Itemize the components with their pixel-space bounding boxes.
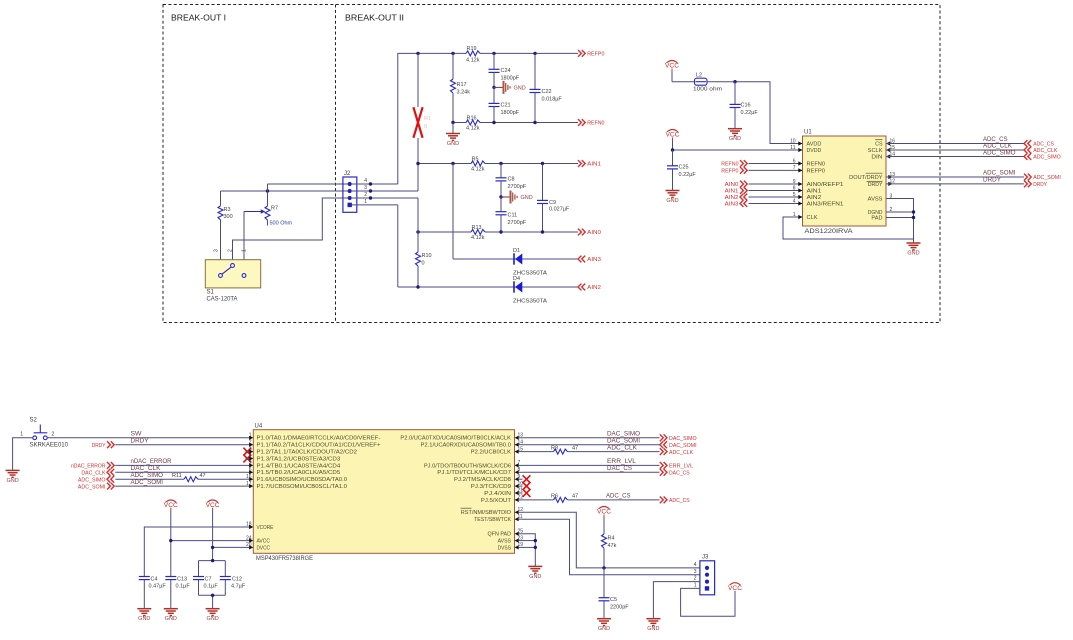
flag REFN0 into U1 [721, 160, 747, 168]
svg-text:ADC_CS: ADC_CS [983, 137, 1008, 143]
svg-text:PJ.4/XIN: PJ.4/XIN [484, 491, 511, 497]
wire R8 to ADC_CLK flag [568, 445, 660, 451]
wire AIN2 to pin 5 [749, 196, 803, 198]
svg-text:8: 8 [793, 185, 796, 191]
title BREAK-OUT II [345, 14, 404, 23]
capacitor C25 0.22uF [667, 150, 696, 190]
svg-text:3: 3 [214, 249, 220, 252]
svg-text:2: 2 [694, 576, 697, 582]
flag DRDY into U4 [92, 441, 115, 449]
flag DAC_SIMO [660, 434, 697, 442]
svg-text:REFN0: REFN0 [587, 121, 604, 127]
svg-text:DRDY: DRDY [1033, 182, 1047, 188]
wire R6 to ADC_CS flag [568, 494, 660, 500]
svg-text:R8: R8 [551, 445, 558, 451]
wire AIN0 to pin 9 [749, 183, 803, 185]
svg-text:ADC_SIMO: ADC_SIMO [131, 473, 164, 479]
svg-text:AIN0/REFP1: AIN0/REFP1 [807, 182, 844, 188]
title BREAK-OUT I [171, 14, 226, 23]
flag REFP0 into U1 [721, 167, 747, 175]
wire S1 pin2 to J2 pin2 row [233, 198, 350, 264]
U1 pin 15 SCLK [868, 145, 896, 154]
op-amp U1 ADS1220IRVA body [803, 130, 887, 236]
svg-text:1800pF: 1800pF [501, 110, 520, 116]
svg-text:DAC_CS: DAC_CS [607, 466, 632, 472]
frame BREAK-OUT dashed border [163, 5, 940, 323]
U4 pin 20 DVCC [246, 542, 271, 551]
svg-text:CS: CS [875, 142, 883, 148]
junction J2 pin4 [369, 182, 372, 185]
resistor R5 4.12k [471, 156, 485, 172]
U1 pin 13 DOUT/DRDY [849, 172, 895, 181]
junction C7/C12 bottom [211, 594, 214, 597]
U1 pin 7 REFP0 [793, 165, 825, 174]
U1 pin 9 AIN0/REFP1 [793, 179, 844, 188]
wire R7 wiper to S1 pin1 [243, 212, 245, 274]
junction AVSS [534, 539, 537, 542]
junction C7/C12 top [211, 559, 214, 562]
junction C8/C11 node [499, 195, 502, 198]
capacitor C21 1800pF [489, 87, 520, 122]
U1 pin 3 AVSS [868, 193, 893, 202]
svg-text:DAC_CLK: DAC_CLK [81, 471, 105, 477]
U1 pin 14 DIN [871, 151, 895, 160]
svg-text:CAS-120TA: CAS-120TA [207, 297, 238, 303]
svg-text:0.1µF: 0.1µF [176, 583, 191, 589]
capacitor C22 0.018uF [530, 53, 563, 122]
wire DVCC to U4 pin 20 [213, 546, 246, 548]
svg-text:C12: C12 [232, 576, 242, 582]
svg-text:ADS1220IRVA: ADS1220IRVA [805, 229, 853, 235]
svg-text:R7: R7 [271, 206, 278, 212]
U1 pin 10 AVDD [790, 138, 821, 147]
svg-text:ERR_LVL: ERR_LVL [669, 464, 693, 470]
ground GND below U4 [528, 566, 542, 580]
svg-text:S2: S2 [30, 418, 38, 424]
svg-text:4: 4 [364, 178, 367, 184]
capacitor C7 0.1uF [193, 576, 218, 589]
svg-text:4.12k: 4.12k [466, 126, 480, 132]
svg-text:7: 7 [793, 165, 796, 171]
junction PAD [912, 216, 915, 219]
flag AIN1 [578, 160, 601, 168]
resistor R16 4.12k [466, 115, 480, 131]
flag ERR_LVL [660, 462, 693, 470]
wire CLK pin 1 to ground rail [783, 217, 914, 239]
svg-text:R5: R5 [472, 156, 479, 162]
wire VCC to DVDD pin 11 [673, 149, 803, 151]
U4 pin 25 QFN PAD [488, 529, 524, 538]
U4 pin 7 PJ.0/TDO/TB0OUTH/SMCLK/CD6 [424, 460, 523, 469]
flag AIN1 into U1 [725, 187, 748, 195]
svg-text:ADC_SIMO: ADC_SIMO [1033, 155, 1061, 161]
U4 pin 12 RST/NMI/SBWTDIO [461, 507, 524, 516]
svg-text:47: 47 [200, 473, 206, 479]
power VCC at J3 [728, 583, 743, 592]
flag AIN0 [578, 229, 601, 237]
svg-text:U4: U4 [255, 424, 263, 430]
svg-text:GND: GND [6, 478, 18, 484]
wire J2 pin2 rail down to AIN0 row [417, 198, 419, 232]
junction AIN1 row at DNP rail [416, 162, 419, 165]
svg-text:AIN2: AIN2 [807, 195, 822, 201]
svg-text:DOUT/DRDY: DOUT/DRDY [849, 175, 883, 181]
svg-text:ADC_CS: ADC_CS [1033, 142, 1054, 148]
capacitor C5 2200pF [599, 568, 630, 618]
junction AVCC/VCC [169, 539, 172, 542]
wire SW net S2 to U4 pin 1 [47, 432, 245, 438]
svg-text:0.027µF: 0.027µF [549, 207, 570, 213]
svg-text:2: 2 [228, 249, 234, 252]
svg-text:BREAK-OUT II: BREAK-OUT II [345, 14, 404, 23]
wire J2 pin1 rail down to AIN2 row [397, 205, 399, 287]
svg-text:REFP0: REFP0 [587, 52, 604, 58]
svg-text:VCC: VCC [728, 586, 743, 592]
U1 pin 5 AIN2 [793, 192, 822, 201]
svg-text:R3: R3 [224, 207, 231, 213]
U1 pin 4 AIN3/REFN1 [793, 198, 844, 207]
flag DRDY out [1024, 181, 1047, 189]
svg-text:GND: GND [521, 195, 533, 201]
U4 pin 5 P1.4/TB0.1/UCA0STE/A4/CD4 [246, 460, 341, 469]
U1 pin 8 AIN1 [793, 185, 822, 194]
no-connect X on U4 pin 21 PJ.4 [523, 489, 531, 497]
svg-text:2700pF: 2700pF [508, 220, 527, 226]
svg-text:REFP0: REFP0 [807, 169, 826, 175]
svg-text:GND: GND [138, 616, 150, 622]
svg-text:AIN0: AIN0 [725, 182, 739, 188]
svg-text:3: 3 [694, 569, 697, 575]
U4 RST overline [461, 507, 472, 509]
svg-text:P1.6/UCB0SIMO/UCB0SDA/TA0.0: P1.6/UCB0SIMO/UCB0SDA/TA0.0 [257, 477, 348, 483]
svg-text:ADC_SOMI: ADC_SOMI [131, 480, 164, 486]
svg-text:C8: C8 [508, 177, 515, 183]
svg-text:500 Ohm: 500 Ohm [270, 221, 293, 227]
svg-text:C4: C4 [151, 576, 158, 582]
resistor R13 4.12k [471, 225, 485, 241]
wire DNP rail to J2 pin3 row [417, 164, 419, 192]
wire AIN2 row [398, 286, 578, 288]
U4 pin 23 AVSS [498, 535, 524, 544]
svg-text:REFP0: REFP0 [721, 169, 738, 175]
svg-text:DRDY: DRDY [868, 182, 883, 188]
ground GND below C25 [666, 191, 680, 205]
capacitor C8 2700pF [496, 164, 527, 198]
U1 pin 1 CLK [793, 212, 818, 221]
junction R4/RST/C5 node [602, 566, 605, 569]
svg-text:C22: C22 [542, 89, 552, 95]
svg-text:P1.7/UCB0SOMI/UCB0SCL/TA1.0: P1.7/UCB0SOMI/UCB0SCL/TA1.0 [257, 484, 348, 490]
svg-text:PJ.2/TMS/ACLK/CD8: PJ.2/TMS/ACLK/CD8 [454, 477, 511, 483]
wire DRDY to U4 pin 2 [115, 438, 245, 444]
svg-text:DRDY: DRDY [983, 178, 1001, 184]
svg-text:C24: C24 [501, 68, 511, 74]
svg-text:4: 4 [793, 198, 796, 204]
svg-text:2: 2 [52, 432, 55, 438]
flag DAC_SOMI [660, 441, 697, 449]
junction DGND [912, 210, 915, 213]
wire AVSS to ground rail [886, 199, 914, 243]
flag ADC_CS [1024, 140, 1054, 148]
svg-text:PJ.0/TDO/TB0OUTH/SMCLK/CD6: PJ.0/TDO/TB0OUTH/SMCLK/CD6 [424, 463, 511, 469]
flag REFP0 [578, 50, 604, 58]
svg-text:GND: GND [907, 251, 919, 257]
switch S2 SKRKAEE010 [20, 418, 68, 449]
svg-text:nDAC_ERROR: nDAC_ERROR [131, 459, 173, 465]
svg-text:AIN3/REFN1: AIN3/REFN1 [807, 202, 844, 208]
svg-text:P1.4/TB0.1/UCA0STE/A4/CD4: P1.4/TB0.1/UCA0STE/A4/CD4 [257, 463, 341, 469]
svg-text:DRDY: DRDY [131, 438, 149, 444]
wire DRDY net [886, 178, 1024, 184]
U1 pin 12 DRDY [868, 179, 896, 188]
junction at C25 [671, 148, 674, 151]
svg-text:0.22µF: 0.22µF [741, 110, 759, 116]
resistor R7 (500 Ohm pot) [244, 184, 293, 227]
svg-text:PAD: PAD [871, 216, 882, 222]
svg-text:ADC_CLK: ADC_CLK [983, 144, 1012, 150]
junction R3/R7 node [266, 189, 269, 192]
switch S1 CAS-120TA [205, 249, 260, 303]
junction REFN0 row at C21 [492, 121, 495, 124]
svg-text:CLK: CLK [807, 215, 818, 221]
svg-text:ADC_CLK: ADC_CLK [669, 450, 693, 456]
svg-text:ADC_CS: ADC_CS [606, 494, 631, 500]
svg-text:C11: C11 [508, 213, 518, 219]
capacitor C4 0.47uF [139, 576, 167, 608]
ground GND below S2 [6, 470, 20, 484]
svg-text:U1: U1 [804, 130, 812, 136]
svg-text:ADC_SIMO: ADC_SIMO [983, 150, 1016, 156]
svg-text:R13: R13 [472, 225, 482, 231]
svg-text:47: 47 [572, 494, 578, 500]
wire AIN0 row [418, 231, 578, 233]
U4 pin 13 P2.0/UCA0TXD/UCA0SIMO/TB0CLK/ACLK [400, 433, 523, 442]
svg-text:C5: C5 [610, 597, 617, 603]
svg-text:PJ.1/TDI/TCLK/MCLK/CD7: PJ.1/TDI/TCLK/MCLK/CD7 [437, 470, 511, 476]
svg-text:1: 1 [694, 583, 697, 589]
svg-text:6: 6 [793, 158, 796, 164]
flag AIN3 [578, 256, 601, 264]
ground GND below C13 [164, 609, 178, 623]
ground GND below C5 [597, 619, 611, 633]
wire ADC_CLK net [886, 144, 1024, 150]
svg-text:MSP430FR5738IRGE: MSP430FR5738IRGE [256, 556, 313, 562]
wire PAD to ground rail [886, 217, 914, 219]
svg-text:47: 47 [572, 445, 578, 451]
wire ADC_CS net [886, 137, 1024, 144]
svg-text:2: 2 [364, 192, 367, 198]
wire J2 pin2 stub [352, 197, 418, 199]
svg-text:AIN1: AIN1 [725, 189, 739, 195]
svg-text:GND: GND [447, 141, 459, 147]
svg-text:S1: S1 [207, 290, 215, 296]
flag nDAC_ERROR into U4 [71, 462, 114, 470]
U1 pin 2 DGND [868, 207, 893, 216]
svg-text:GND: GND [529, 574, 541, 580]
U4 pin 3 P1.2/TA1.1/TA0CLK/CDOUT/A2/CD2 [246, 446, 358, 455]
power VCC at L2 [665, 61, 680, 82]
flag ADC_SOMI into U4 [78, 483, 114, 491]
svg-text:P1.2/TA1.1/TA0CLK/CDOUT/A2/CD2: P1.2/TA1.1/TA0CLK/CDOUT/A2/CD2 [257, 450, 358, 456]
svg-text:AIN2: AIN2 [587, 285, 601, 291]
resistor R8 47 [551, 445, 578, 454]
ground GND below R16 [446, 123, 460, 148]
wire AVSS to ground rail [523, 540, 536, 542]
resistor R11 47 [172, 473, 206, 482]
svg-text:ADC_CLK: ADC_CLK [1033, 148, 1057, 154]
svg-text:SCLK: SCLK [868, 148, 883, 154]
wire P2.2 to R8 [523, 451, 554, 453]
junction at C16 [733, 80, 736, 83]
junction DVSS [534, 546, 537, 549]
U1 DOUT/DRDY overline [866, 172, 883, 174]
svg-text:nDAC_ERROR: nDAC_ERROR [71, 464, 106, 470]
svg-text:2200pF: 2200pF [610, 605, 629, 611]
svg-text:ZHCS350TA: ZHCS350TA [513, 299, 547, 305]
power VCC at AVCC [164, 500, 179, 577]
svg-text:R10: R10 [422, 253, 432, 259]
svg-text:DVCC: DVCC [257, 545, 271, 551]
resistor R19 4.12k [466, 46, 480, 64]
resistor R10 0 ohm [416, 232, 432, 287]
junction REFP0 row at C22 [533, 52, 536, 55]
svg-text:R16: R16 [467, 115, 477, 121]
wire J3 pin1 to VCC [681, 588, 735, 616]
junction AIN2 row at R10 [416, 285, 419, 288]
svg-text:0.1µF: 0.1µF [204, 583, 219, 589]
junction J2 pin2 [369, 196, 372, 199]
junction J2 pin3 [369, 189, 372, 192]
svg-text:1: 1 [793, 212, 796, 218]
U4 pin 6 P1.5/TB0.2/UCA0CLK/A5/CD5 [246, 467, 341, 476]
wire nDAC_ERROR to U4 pin 5 [115, 459, 245, 465]
svg-text:DAC_SOMI: DAC_SOMI [669, 443, 697, 449]
wire R7 top to J2 pin4 row [268, 183, 350, 185]
svg-text:GND: GND [165, 616, 177, 622]
wire REFN0 row [453, 122, 578, 124]
svg-text:GND: GND [666, 198, 678, 204]
svg-text:AIN3: AIN3 [725, 202, 739, 208]
flag DAC_CS [660, 469, 690, 477]
svg-text:R1: R1 [424, 116, 431, 122]
svg-text:REFN0: REFN0 [807, 162, 826, 168]
svg-text:4.12k: 4.12k [471, 235, 485, 241]
wire J2 pin3 stub [352, 190, 418, 192]
wire C7/C12 parallel loop [199, 561, 226, 609]
svg-text:J3: J3 [702, 555, 709, 561]
ground GND below J3 pin2 [646, 619, 660, 633]
junction AIN0 row at C11 [499, 230, 502, 233]
wire DVSS to ground rail [523, 546, 536, 548]
svg-text:QFN PAD: QFN PAD [488, 532, 512, 538]
wire AIN3 row [453, 258, 578, 260]
U4 pin 2 P1.1/TA0.2/TA1CLK/CDOUT/A1/CD1/VEREF+ [246, 439, 381, 448]
svg-text:AVDD: AVDD [807, 142, 822, 148]
wire J2 pin4 up to REFP0 row [398, 53, 418, 184]
svg-text:P2.2/UCB0CLK: P2.2/UCB0CLK [471, 450, 512, 456]
wire J2 pin1 stub [352, 204, 398, 206]
svg-text:P2.1/UCA0RXD/UCA0SOMI/TB0.0: P2.1/UCA0RXD/UCA0SOMI/TB0.0 [421, 443, 512, 449]
svg-text:AIN2: AIN2 [725, 195, 739, 201]
junction REFP0 row at C24 [492, 52, 495, 55]
svg-text:AIN1: AIN1 [807, 189, 822, 195]
svg-text:R4: R4 [608, 536, 615, 542]
svg-text:C21: C21 [501, 102, 511, 108]
wire DAC_CS net [523, 466, 660, 472]
svg-text:1000 ohm: 1000 ohm [693, 87, 722, 93]
U1 pin 16 CS [875, 138, 895, 147]
flag ADC_CLK out [660, 448, 694, 456]
wire VCORE to C4 [144, 527, 245, 577]
svg-text:0: 0 [424, 124, 427, 130]
wire RST to J3 pin 4 row [523, 512, 700, 568]
ground GND below C16 [728, 129, 742, 143]
wire ADC_SOMI to U4 pin 17 [115, 480, 245, 486]
svg-text:D4: D4 [513, 276, 520, 282]
flag DAC_CLK into U4 [81, 469, 114, 477]
U4 pin 19 DVSS [498, 542, 524, 551]
svg-text:GND: GND [598, 626, 610, 632]
junction C24/C21 node [492, 86, 495, 89]
svg-text:AVSS: AVSS [498, 539, 512, 545]
capacitor C12 4.7uF [220, 576, 246, 589]
svg-text:D1: D1 [513, 248, 520, 254]
resistor R6 47 [551, 494, 578, 503]
svg-text:11: 11 [790, 145, 795, 151]
no-connect X on U4 pin 9 PJ.2 [523, 475, 531, 483]
wire S2 pin1 to ground [13, 438, 33, 470]
svg-text:1: 1 [242, 249, 248, 252]
wire J3 pin2 to ground [653, 582, 700, 619]
svg-text:P1.0/TA0.1/DMAE0/RTCCLK/A0/CD0: P1.0/TA0.1/DMAE0/RTCCLK/A0/CD0/VEREF- [257, 436, 381, 442]
svg-text:1800pF: 1800pF [501, 76, 520, 82]
U1 pin 11 DVDD [790, 145, 821, 154]
power VCC at DVDD [666, 130, 681, 151]
ground GND below U1 [907, 243, 921, 257]
wire J2 pin4 stub [352, 183, 398, 185]
svg-text:DIN: DIN [871, 155, 882, 161]
svg-text:SW: SW [131, 432, 142, 438]
wire AIN1 to pin 8 [749, 190, 803, 192]
U4 pin 8 PJ.1/TDI/TCLK/MCLK/CD7 [437, 467, 522, 476]
svg-text:ADC_SOMI: ADC_SOMI [1033, 175, 1061, 181]
capacitor C11 2700pF [496, 197, 527, 232]
U4 pin 4 P1.3/TA1.2/UCB0STE/A3/CD3 [246, 453, 341, 462]
svg-text:1: 1 [20, 432, 23, 438]
svg-text:ADC_CS: ADC_CS [669, 498, 690, 504]
resistor R17 3.24k [451, 53, 471, 122]
wire REFP0 to pin 7 [749, 169, 803, 171]
svg-text:3: 3 [364, 185, 367, 191]
wire QFN PAD to ground rail [523, 534, 536, 566]
power VCC at R4 [597, 507, 612, 535]
U4 pin 21 PJ.4/XIN [484, 488, 523, 497]
svg-text:ERR_LVL: ERR_LVL [607, 459, 637, 465]
svg-text:REFN0: REFN0 [721, 162, 738, 168]
svg-text:4.12k: 4.12k [466, 58, 480, 64]
U4 pin 15 P2.2/UCB0CLK [471, 446, 523, 455]
flag ADC_SIMO [1024, 153, 1061, 161]
flag AIN0 into U1 [725, 181, 748, 189]
wire VCC to L2 [672, 81, 695, 83]
svg-text:0: 0 [422, 261, 425, 267]
wire AVCC to U4 pin 24 [171, 540, 246, 542]
svg-text:AVSS: AVSS [868, 197, 883, 203]
U4 pin 16 P1.6/UCB0SIMO/UCB0SDA/TA0.0 [246, 474, 348, 483]
no-connect X on U4 pin 3 [243, 448, 251, 456]
svg-text:J2: J2 [344, 171, 351, 177]
svg-text:P1.5/TB0.2/UCA0CLK/A5/CD5: P1.5/TB0.2/UCA0CLK/A5/CD5 [257, 470, 341, 476]
